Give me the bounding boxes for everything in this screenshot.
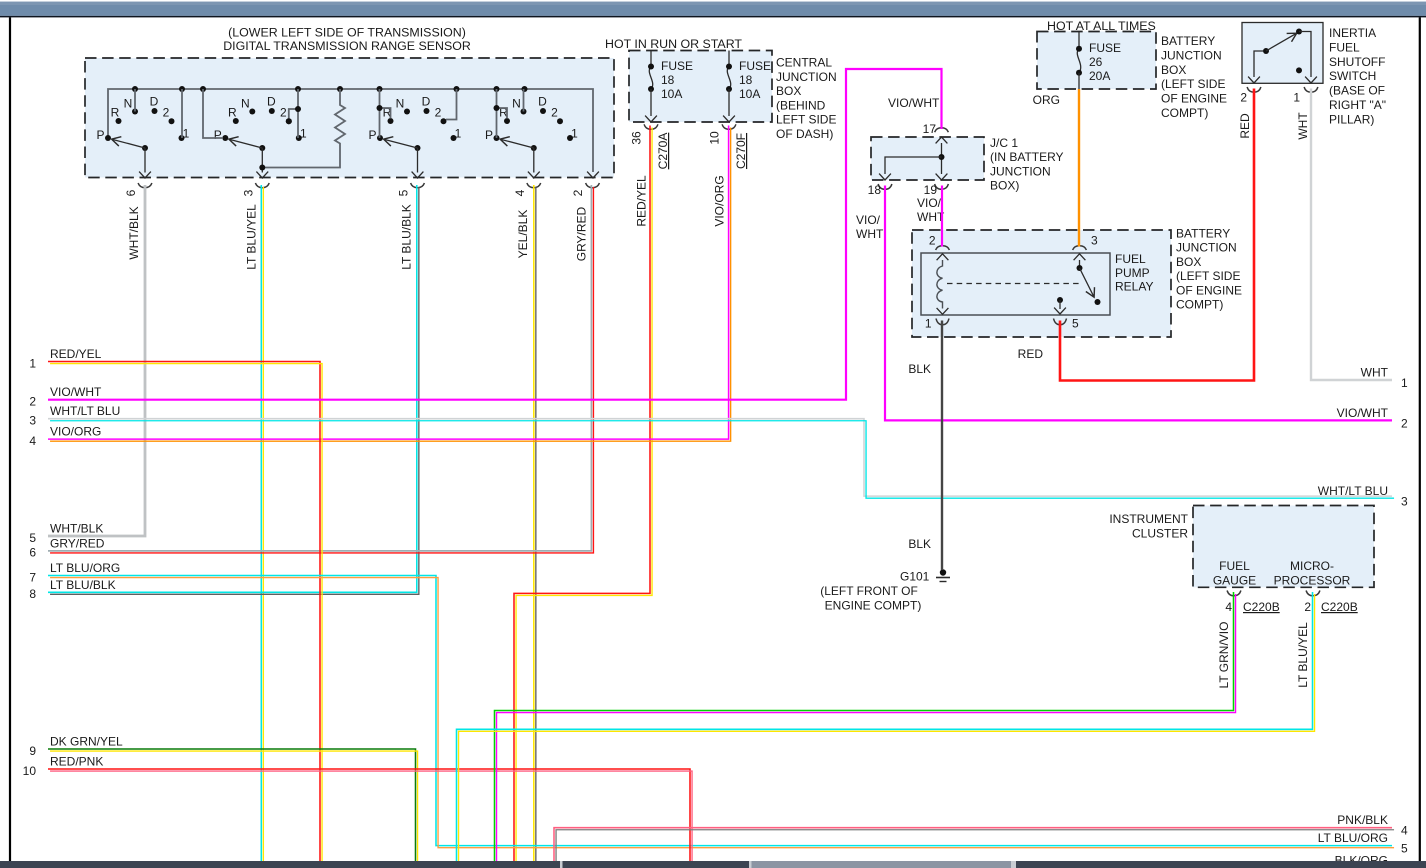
gang position labels [368,94,461,142]
svg-text:DK GRN/YEL: DK GRN/YEL [50,735,123,749]
bottom scrollbar [0,861,1426,868]
svg-text:6: 6 [124,189,138,196]
svg-text:VIO/WHT: VIO/WHT [50,385,102,399]
wire VIO/WHT J/C1 pin19 to relay pin2 [941,186,943,247]
inertia switch open contact dot [1296,67,1302,73]
inertia switch pin2 contact [1248,48,1269,83]
svg-text:R: R [228,106,237,120]
svg-text:1: 1 [571,126,578,140]
svg-text:FUSE: FUSE [739,59,771,73]
svg-text:WHT: WHT [1296,112,1310,140]
gang position labels [214,94,307,142]
svg-text:RIGHT "A": RIGHT "A" [1329,98,1386,112]
wire label LT GRN/VIO vertical [1217,622,1231,689]
wire label BLK lower [908,537,931,551]
gang wiper output wire [139,148,151,178]
gang contact stub wire [289,109,298,119]
svg-text:8: 8 [29,587,36,601]
left row 4 label VIO/ORG [29,425,101,448]
svg-text:10: 10 [23,764,37,778]
central junction box [629,51,772,123]
svg-text:P: P [368,128,376,142]
sensor pin numbers [124,189,585,196]
svg-text:2: 2 [571,189,585,196]
svg-text:FUEL: FUEL [1329,40,1360,54]
svg-text:2: 2 [1304,600,1311,614]
svg-text:(LOWER LEFT SIDE OF TRANSMISSI: (LOWER LEFT SIDE OF TRANSMISSION) [228,26,466,40]
svg-text:COMPT): COMPT) [1161,106,1208,120]
gang contact dots P R N D 2 1 [494,108,574,141]
wire LT GRN/VIO cluster pin4 [495,592,1236,863]
wire VIO/WHT row2 to J/C1 pin17 [48,69,942,400]
gang wiper arm [229,139,265,151]
sensor wire labels [127,204,589,270]
cluster pin 2 connector C220B [1304,591,1357,615]
svg-text:WHT/LT BLU: WHT/LT BLU [50,404,120,418]
battery junction box (relay) [912,230,1171,337]
gang wiper output wire [528,148,540,178]
J/C 1 pin 18 connector [868,183,892,197]
svg-text:INSTRUMENT: INSTRUMENT [1109,512,1188,526]
svg-text:BOX): BOX) [990,179,1019,193]
svg-text:INERTIA: INERTIA [1329,26,1376,40]
gang contact dots P R N D 2 1 [222,108,301,141]
svg-text:2: 2 [435,106,442,120]
svg-text:4: 4 [29,434,36,448]
svg-text:C220B: C220B [1321,600,1358,614]
svg-text:LT GRN/VIO: LT GRN/VIO [1217,622,1231,689]
svg-text:10: 10 [708,131,722,145]
wire label VIO/ORG vertical [713,175,727,226]
gang N contact wire [523,89,525,112]
svg-text:BOX: BOX [776,84,801,98]
wire label BLK upper [908,362,931,376]
J/C 1 box [871,137,984,180]
gang wiper arm [112,139,148,151]
left row 5 label WHT/BLK [29,522,103,545]
svg-text:OF DASH): OF DASH) [776,127,833,141]
gang contact dots P R N D 2 1 [105,108,185,141]
C270F connector [708,124,749,169]
gang wiper output wire [412,148,424,178]
right row 3 label WHT/LT BLU [1318,484,1408,509]
ground G101 [820,569,950,612]
svg-text:1: 1 [455,126,462,140]
svg-text:5: 5 [397,189,411,196]
svg-text:ORG: ORG [1033,93,1060,107]
wire PNK/BLK to right row4 [554,828,1394,863]
svg-text:4: 4 [1225,600,1232,614]
svg-text:RED/YEL: RED/YEL [635,175,649,227]
wire label RED vertical [1238,113,1252,139]
svg-text:CENTRAL: CENTRAL [776,56,832,70]
svg-text:D: D [150,94,159,108]
wire RED/YEL fuse18 C270A [514,126,652,864]
left row 8 label LT BLU/BLK [29,578,115,601]
svg-text:BATTERY: BATTERY [1161,34,1215,48]
svg-text:RED: RED [1018,347,1044,361]
fuse 18 (C270F) [723,51,771,123]
wire label RED/YEL vertical [635,175,649,227]
left row 7 label LT BLU/ORG [29,561,120,584]
microprocessor label [1274,559,1351,588]
svg-text:LT BLU/BLK: LT BLU/BLK [400,204,414,270]
svg-text:1: 1 [1401,376,1408,390]
sensor supply bus wire [108,89,599,178]
battery junction box (fuse 26) [1037,32,1156,90]
svg-text:D: D [267,94,276,108]
svg-text:20A: 20A [1089,69,1110,83]
svg-text:FUSE: FUSE [661,59,693,73]
svg-text:PNK/BLK: PNK/BLK [1337,813,1388,827]
svg-text:C270A: C270A [656,133,670,170]
svg-text:LT BLU/ORG: LT BLU/ORG [1318,831,1388,845]
wire LT BLU/BLK pin5 to row8 [48,185,419,594]
svg-text:RED: RED [1238,113,1252,139]
wire WHT/LT BLU row3 [48,419,1394,498]
wire YEL/BLK pin4 [534,185,536,863]
svg-text:LT BLU/BLK: LT BLU/BLK [50,578,116,592]
wire label WHT vertical [1296,112,1310,140]
svg-text:1: 1 [183,126,190,140]
top title bar [0,2,1426,18]
svg-text:BLK: BLK [908,537,931,551]
svg-text:(BEHIND: (BEHIND [776,98,826,112]
gang contact connection wire [203,89,222,138]
wire label VIO/WHT top [888,96,940,110]
wire RED relay pin5 to inertia pin2 [1060,89,1254,381]
central junction box caption [776,56,837,142]
svg-text:9: 9 [29,744,36,758]
svg-text:FUEL: FUEL [1115,252,1146,266]
transmission range sensor box [85,58,614,178]
gang contact stub wire [497,108,508,119]
svg-text:SWITCH: SWITCH [1329,69,1376,83]
cluster pin 4 connector C220B [1225,591,1279,615]
svg-text:HOT IN RUN OR START: HOT IN RUN OR START [605,37,742,51]
wire WHT inertia pin1 to right row1 [1311,89,1392,381]
gang position labels [96,94,189,142]
svg-text:5: 5 [1401,842,1408,856]
svg-text:LT BLU/ORG: LT BLU/ORG [50,561,120,575]
svg-text:VIO/: VIO/ [856,213,881,227]
svg-text:2: 2 [29,395,36,409]
fuel pump relay body [921,253,1110,315]
svg-text:FUSE: FUSE [1089,41,1121,55]
svg-text:(BASE OF: (BASE OF [1329,84,1385,98]
gang contact stub wire [494,105,500,111]
svg-text:P: P [485,128,493,142]
svg-text:18: 18 [739,73,753,87]
svg-text:JUNCTION: JUNCTION [990,164,1051,178]
svg-text:1: 1 [300,126,307,140]
svg-text:19: 19 [924,183,938,197]
gang wiper output wire [256,148,268,178]
transmission range sensor title [223,26,471,54]
svg-text:VIO/ORG: VIO/ORG [50,425,101,439]
left row 3 label WHT/LT BLU [29,404,120,427]
svg-text:10A: 10A [661,87,682,101]
svg-text:MICRO-: MICRO- [1290,559,1334,573]
gang contact dots P R N D 2 1 [377,108,457,141]
wire GRY/RED pin2 to row6 [48,185,593,553]
svg-text:RED/YEL: RED/YEL [50,347,102,361]
svg-text:4: 4 [1401,824,1408,838]
gang contact connection wire [297,89,299,138]
wire label ORG [1033,93,1060,107]
hot in run or start label [605,37,742,51]
svg-text:PROCESSOR: PROCESSOR [1274,574,1351,588]
J/C 1 internal bus [879,137,947,180]
wire WHT/BLK pin6 to row5 [48,185,145,536]
svg-text:1: 1 [1293,91,1300,105]
svg-text:2: 2 [163,106,170,120]
svg-text:2: 2 [551,106,558,120]
instrument cluster box [1193,506,1374,588]
svg-text:G101: G101 [900,570,930,584]
svg-text:OF ENGINE: OF ENGINE [1161,92,1227,106]
battery junction box relay caption [1176,227,1242,312]
svg-text:BATTERY: BATTERY [1176,227,1230,241]
right row 1 label WHT [1361,366,1408,391]
gang N contact wire [134,89,136,112]
svg-text:3: 3 [1091,233,1098,247]
svg-text:YEL/BLK: YEL/BLK [516,210,530,259]
svg-text:JUNCTION: JUNCTION [1176,241,1237,255]
gang wiper arm [500,139,537,151]
svg-text:BOX: BOX [1176,255,1201,269]
battery junction box caption [1161,34,1227,120]
wire label VIO/WHT pin18 [856,213,884,241]
left row 6 label GRY/RED [29,536,104,559]
svg-text:3: 3 [242,189,256,196]
svg-text:N: N [512,96,521,110]
svg-text:JUNCTION: JUNCTION [1161,48,1222,62]
svg-text:DIGITAL TRANSMISSION RANGE SEN: DIGITAL TRANSMISSION RANGE SENSOR [223,39,471,53]
left row 2 label VIO/WHT [29,385,102,408]
svg-text:N: N [124,96,133,110]
wire RED/YEL row1 [48,362,322,864]
svg-text:3: 3 [29,414,36,428]
svg-text:D: D [538,94,547,108]
wire LT BLU/YEL cluster pin2 [457,592,1315,863]
left frame border [9,17,11,861]
fuse 18 (C270A) [645,51,693,123]
svg-text:WHT/BLK: WHT/BLK [127,206,141,259]
svg-text:PUMP: PUMP [1115,266,1150,280]
svg-text:2: 2 [1240,91,1247,105]
wire DK GRN/YEL row9 [48,749,418,863]
svg-text:17: 17 [923,122,937,136]
fuel pump relay caption [1115,252,1153,294]
inertia switch caption [1329,26,1386,126]
svg-text:2: 2 [280,106,287,120]
fuel gauge label [1213,559,1256,588]
svg-text:WHT: WHT [856,227,884,241]
svg-text:LEFT SIDE: LEFT SIDE [776,113,836,127]
left row 10 label RED/PNK [23,755,104,778]
svg-text:GRY/RED: GRY/RED [50,536,105,550]
right row 5 label LT BLU/ORG [1318,831,1408,856]
svg-text:BLK: BLK [908,362,931,376]
C270A connector [630,124,671,169]
svg-text:5: 5 [1072,317,1079,331]
svg-text:2: 2 [1401,416,1408,430]
relay coil [937,254,949,314]
svg-text:5: 5 [29,531,36,545]
svg-text:VIO/ORG: VIO/ORG [713,175,727,226]
relay switch [1074,254,1101,305]
sensor connector arcs [138,183,599,188]
relay pin5 contact [1054,297,1066,314]
wire VIO/WHT J/C1 pin18 to right row2 [885,186,1392,421]
gang contact stub wire [446,89,457,120]
svg-text:WHT/BLK: WHT/BLK [50,522,103,536]
svg-text:FUEL: FUEL [1219,559,1250,573]
left row 1 label RED/YEL [29,347,101,370]
wire label VIO/WHT pin19 [917,196,945,224]
svg-text:(LEFT SIDE: (LEFT SIDE [1176,269,1240,283]
gang contact stub wire [380,108,391,119]
right frame border [1419,17,1421,861]
gang contact stub wire [295,106,301,112]
svg-text:GAUGE: GAUGE [1213,574,1256,588]
J/C 1 pin 19 connector [924,183,949,197]
gang contact connection wire [181,89,183,138]
inertia fuel shutoff switch box [1242,23,1323,84]
inertia switch connectors [1240,87,1318,105]
inertia switch arm [1266,29,1302,52]
J/C 1 pin 17 connector [923,122,949,136]
svg-text:26: 26 [1089,55,1103,69]
svg-text:LT BLU/YEL: LT BLU/YEL [245,204,259,270]
relay dashed link [947,283,1081,285]
right row 4 label PNK/BLK [1337,813,1408,838]
svg-text:C220B: C220B [1243,600,1280,614]
svg-text:BOX: BOX [1161,63,1186,77]
svg-text:D: D [422,94,431,108]
svg-text:VIO/: VIO/ [917,196,942,210]
gang contact stub wire [377,105,383,111]
gang contact connection wire [379,89,381,138]
instrument cluster caption [1109,512,1188,541]
svg-text:SHUTOFF: SHUTOFF [1329,55,1385,69]
wire label RED relay [1018,347,1044,361]
svg-text:2: 2 [929,233,936,247]
svg-text:N: N [396,96,405,110]
svg-text:R: R [111,106,120,120]
inertia switch pin1 wire [1299,32,1317,84]
svg-text:PILLAR): PILLAR) [1329,112,1374,126]
svg-text:3: 3 [1401,494,1408,508]
svg-text:P: P [214,128,222,142]
svg-text:CLUSTER: CLUSTER [1132,527,1188,541]
svg-text:VIO/WHT: VIO/WHT [1337,406,1389,420]
gang wiper arm [384,139,421,151]
svg-text:C270F: C270F [734,133,748,169]
svg-text:(IN BATTERY: (IN BATTERY [990,150,1064,164]
gang contact connection wire [496,89,498,138]
svg-text:18: 18 [868,183,882,197]
svg-text:7: 7 [29,570,36,584]
svg-text:LT BLU/YEL: LT BLU/YEL [1296,622,1310,688]
svg-text:1: 1 [29,356,36,370]
bus junction dots [132,86,528,92]
sensor resistor [259,89,345,171]
relay pin 1 connector [925,317,949,331]
svg-text:COMPT): COMPT) [1176,298,1223,312]
svg-text:4: 4 [513,189,527,196]
hot at all times label [1047,19,1156,33]
svg-text:6: 6 [29,546,36,560]
left row 9 label DK GRN/YEL [29,735,123,758]
svg-text:(LEFT FRONT OF: (LEFT FRONT OF [820,584,918,598]
gang position labels [485,94,578,142]
relay pin 2 connector [929,233,950,250]
svg-text:WHT: WHT [917,210,945,224]
right row 6 label BLK/ORG [1335,854,1388,868]
svg-text:36: 36 [630,131,644,145]
wire ORG fuse26 to relay pin3 [1078,89,1080,247]
svg-text:1: 1 [925,317,932,331]
svg-text:J/C 1: J/C 1 [990,136,1018,150]
wire label LT BLU/YEL vertical [1296,622,1310,688]
wire VIO/ORG fuse18 C270F to row4 [48,126,731,442]
svg-text:JUNCTION: JUNCTION [776,70,837,84]
wire LT BLU/ORG row7 to right row5 [48,576,1394,848]
svg-text:VIO/WHT: VIO/WHT [888,96,940,110]
svg-text:18: 18 [661,73,675,87]
svg-text:P: P [96,128,104,142]
svg-text:WHT/LT BLU: WHT/LT BLU [1318,484,1388,498]
fuse 26 [1076,32,1121,90]
svg-text:GRY/RED: GRY/RED [575,206,589,261]
svg-text:ENGINE COMPT): ENGINE COMPT) [825,599,922,613]
svg-text:(LEFT SIDE: (LEFT SIDE [1161,77,1225,91]
gang contact stub wire [286,118,292,124]
wire RED/PNK row10 [48,769,692,863]
wire LT BLU/YEL pin3 [261,185,263,863]
svg-text:N: N [241,96,250,110]
svg-text:WHT: WHT [1361,366,1389,380]
relay pin 3 connector [1073,233,1098,250]
svg-text:RED/PNK: RED/PNK [50,755,103,769]
svg-text:OF ENGINE: OF ENGINE [1176,283,1242,297]
relay pin 5 connector [1054,317,1080,331]
J/C 1 caption [990,136,1064,193]
wire BLK relay pin1 to ground [941,321,943,571]
svg-text:10A: 10A [739,87,760,101]
right row 2 label VIO/WHT [1337,406,1408,431]
svg-text:RELAY: RELAY [1115,280,1153,294]
